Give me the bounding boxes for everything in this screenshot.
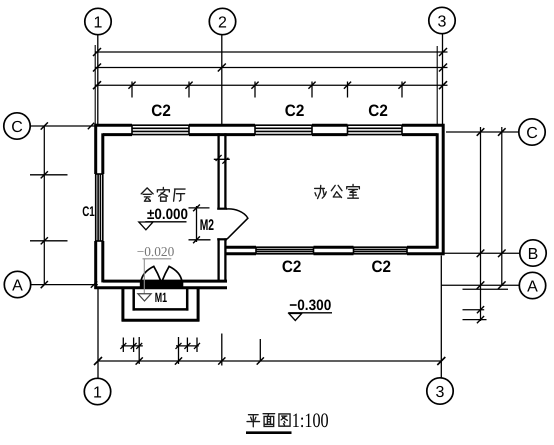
window C2 bottom 1 (256, 246, 314, 248)
door M2 leaf and swing (227, 209, 248, 239)
door M1 left leaf (141, 266, 161, 281)
svg-text:−0.020: −0.020 (137, 244, 175, 259)
grid bubble 3 bottom (427, 378, 453, 404)
svg-text:A: A (12, 277, 23, 294)
svg-text:1: 1 (94, 14, 103, 31)
axis line C left (30, 125, 95, 127)
svg-text:−0.300: −0.300 (289, 297, 331, 314)
window C2 bottom 2 (354, 246, 408, 248)
elevation +-0.000 symbol (139, 222, 153, 230)
grid bubble 1 top (85, 8, 111, 34)
grid line 1 vertical top (97, 35, 99, 124)
axis line A right (441, 284, 518, 286)
grid line 3 vertical bottom (440, 256, 442, 379)
title underline (246, 431, 292, 434)
top dimension ticks overall (93, 48, 101, 56)
svg-text:1:100: 1:100 (292, 410, 329, 432)
grid bubble C right (519, 119, 545, 145)
reception south wall outer line (94, 286, 227, 289)
room label office (shi) (347, 184, 360, 198)
door M1 threshold (140, 281, 184, 288)
left dimension tick C1 bottom (30, 240, 68, 242)
door M2 jamb top (217, 208, 227, 210)
grid bubble A left (4, 271, 30, 297)
elevation -0.300 underline (288, 312, 332, 314)
right wall inner line (436, 133, 439, 248)
svg-text:3: 3 (436, 384, 445, 401)
grid bubble 2 top (209, 8, 235, 34)
title plan (ping) (247, 415, 259, 427)
title plan (mian) (263, 414, 275, 427)
left dimension vertical (43, 126, 45, 285)
svg-text:C1: C1 (82, 203, 95, 219)
bottom small dim ticks (122, 338, 124, 353)
elevation -0.300 symbol (289, 314, 302, 321)
svg-text:1: 1 (93, 384, 102, 401)
bottom small dim line left (122, 345, 143, 347)
top wall inner line (103, 133, 132, 136)
right dimension vertical 1 (480, 127, 482, 321)
office south wall inner line (225, 246, 256, 249)
svg-text:A: A (527, 278, 538, 295)
bottom dimension end slashes (94, 357, 102, 365)
grid line 1 vertical bottom (97, 289, 99, 378)
partition wall right line (224, 133, 226, 208)
office south wall outer line (225, 252, 256, 255)
elevation -0.020 symbol (138, 294, 151, 301)
svg-text:3: 3 (438, 13, 447, 30)
svg-text:M1: M1 (155, 290, 168, 305)
grid bubble A right (519, 272, 545, 298)
svg-text:B: B (528, 246, 539, 263)
grid bubble C left (4, 113, 30, 139)
room label reception (hui) (141, 188, 153, 201)
reception south wall inner line (103, 280, 227, 283)
right dimension vertical 2 (501, 127, 503, 286)
window C2 top 2 (255, 124, 312, 126)
bottom small dim line right (176, 345, 199, 347)
room label office (ban) (315, 185, 327, 198)
svg-text:M2: M2 (200, 217, 214, 234)
svg-text:C2: C2 (368, 102, 388, 120)
elevation -0.020 underline (143, 258, 172, 260)
right wall outer line (442, 124, 445, 255)
axis line A left (31, 284, 98, 286)
room label reception (ting) (174, 189, 186, 201)
window C2 top 1 (132, 124, 189, 126)
door M2 jamb bottom (217, 238, 227, 240)
svg-text:C2: C2 (151, 102, 171, 120)
right dimension tick lower 2 (463, 319, 487, 321)
svg-text:C: C (11, 119, 23, 136)
right dimension aux line (463, 288, 509, 290)
grid line 3 vertical top (442, 34, 444, 124)
porch outer step (121, 289, 124, 322)
svg-text:C2: C2 (282, 258, 302, 276)
room label office (gong) (331, 185, 342, 197)
svg-text:±0.000: ±0.000 (147, 206, 188, 223)
top dimension line overall (95, 51, 447, 53)
top wall outer line (94, 124, 132, 127)
axis line B right (441, 252, 519, 254)
partition wall break tick (214, 158, 230, 160)
elevation +-0.000 underline (145, 221, 186, 223)
grid bubble B right (520, 240, 546, 266)
left wall inner line (101, 133, 104, 174)
window C2 top 3 (348, 124, 403, 126)
window C1 left wall (95, 174, 97, 241)
top dimension line axes (95, 67, 447, 69)
top dimension line openings (95, 84, 447, 86)
bottom dimension line (98, 360, 442, 362)
bottom dimension ticks (138, 337, 140, 364)
top dimension ticks openings (131, 82, 133, 98)
title plan (tu) (279, 414, 290, 426)
right dimension tick lower 1 (463, 309, 485, 311)
left dimension tick C1 top (30, 174, 68, 176)
svg-text:C: C (526, 125, 538, 142)
top dimension ticks axes (218, 64, 226, 72)
svg-text:2: 2 (218, 14, 227, 31)
partition wall left line (217, 133, 219, 208)
door M2 dimension (196, 206, 198, 242)
grid bubble 1 bottom (84, 378, 110, 404)
porch inner step (132, 289, 135, 311)
svg-text:C2: C2 (285, 102, 305, 120)
left wall outer line (94, 124, 97, 174)
grid bubble 3 top (429, 7, 455, 33)
door M1 right leaf (162, 266, 182, 281)
grid line 2 vertical top (221, 35, 223, 125)
svg-text:C2: C2 (372, 258, 392, 276)
axis line C right (446, 131, 519, 133)
room label reception (ke) (157, 187, 169, 201)
elevation -0.020 leader line (143, 259, 145, 294)
